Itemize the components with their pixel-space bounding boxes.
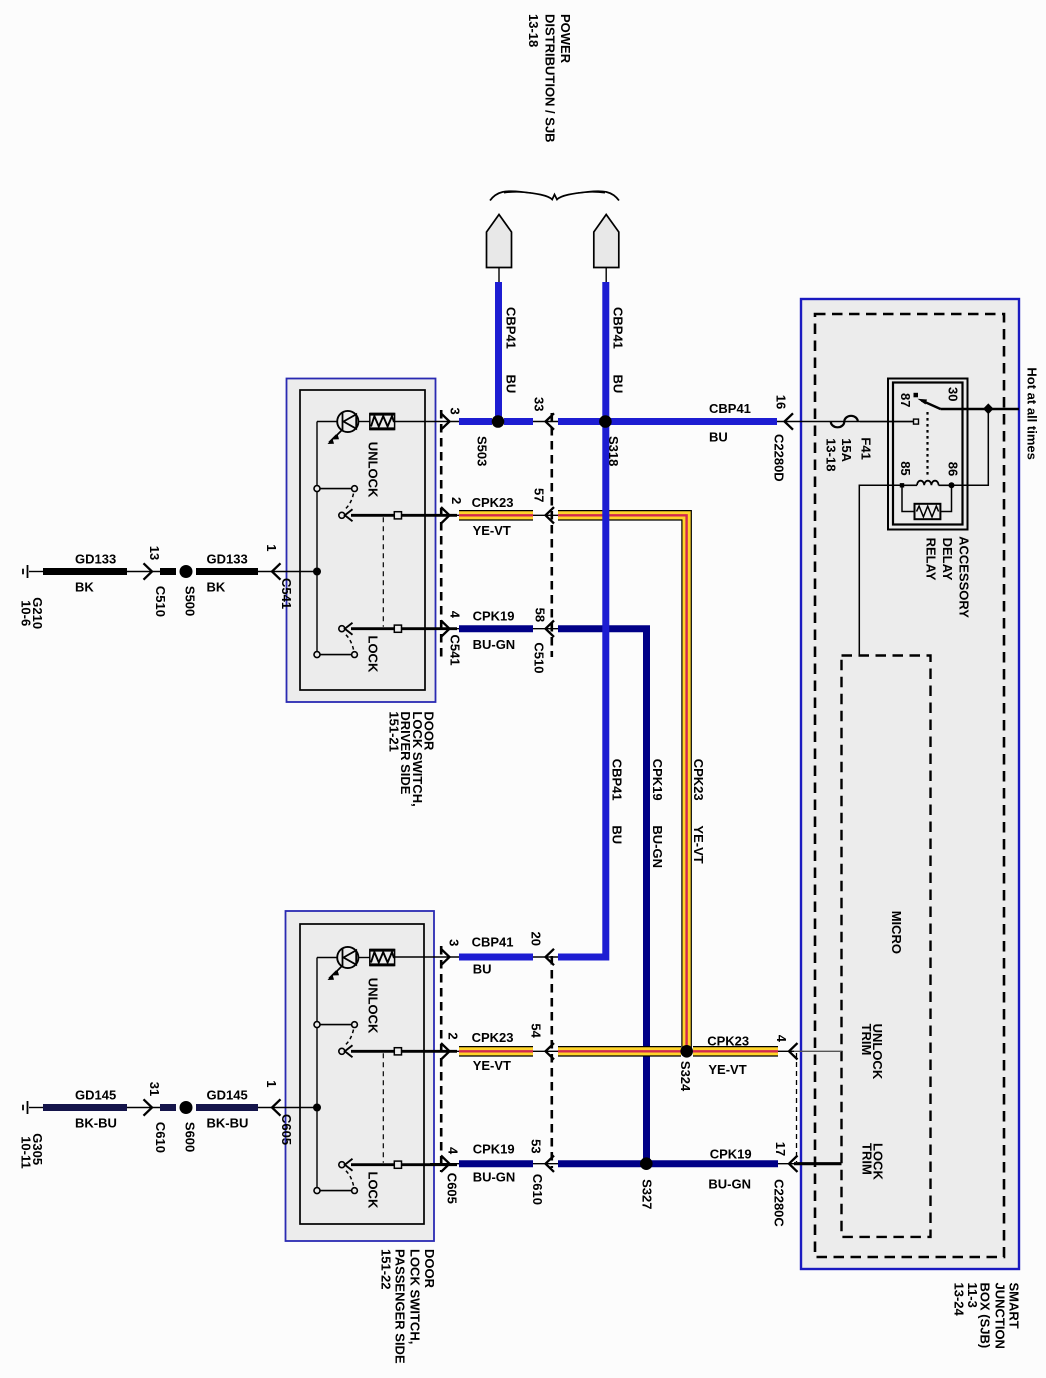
svg-text:3: 3 (447, 939, 462, 946)
svg-text:DELAY: DELAY (940, 538, 955, 581)
svg-text:YE-VT: YE-VT (691, 825, 706, 863)
svg-text:C610: C610 (153, 1122, 168, 1153)
svg-text:151-21: 151-21 (386, 711, 401, 751)
lock output wire (351, 1161, 457, 1168)
svg-text:53: 53 (529, 1139, 544, 1153)
door lock switch driver side: outer box (287, 379, 436, 703)
svg-text:BU: BU (609, 825, 624, 844)
relay pin labels (898, 387, 961, 476)
off-page connector arrow (left) (487, 215, 512, 283)
UNLOCK label (366, 442, 381, 498)
svg-text:BK-BU: BK-BU (75, 1115, 117, 1130)
svg-text:10-11: 10-11 (19, 1136, 34, 1169)
svg-text:C2280D: C2280D (772, 434, 787, 482)
unlock contact (314, 1022, 357, 1058)
CPK19 BU-GN labels (driver) (473, 609, 516, 653)
pin 16 and C2280D labels (772, 395, 789, 482)
svg-text:CPK19: CPK19 (650, 759, 665, 801)
svg-text:BK-BU: BK-BU (207, 1115, 249, 1130)
connector labels passenger rows (445, 1173, 546, 1205)
Hot at all times label (1025, 367, 1040, 459)
svg-text:UNLOCK: UNLOCK (366, 442, 381, 498)
ACCESSORY DELAY RELAY label (924, 536, 972, 618)
svg-text:33: 33 (532, 397, 547, 411)
svg-text:C605: C605 (279, 1114, 294, 1145)
inline connector arrow pin 13 (127, 563, 160, 579)
ground G305 label (19, 1133, 46, 1168)
svg-text:BU: BU (611, 375, 626, 394)
svg-text:30: 30 (946, 387, 961, 401)
wire CPK19 BU-GN run to corner and vertical drop (558, 629, 647, 1164)
svg-text:4: 4 (774, 1035, 789, 1043)
CBP41 BU labels (passenger) (472, 935, 514, 977)
unlock contact (314, 486, 357, 522)
pin 4 / 17 / C2280C labels (772, 1035, 789, 1228)
svg-text:CPK23: CPK23 (691, 759, 706, 801)
connector C510 dashed line (550, 413, 553, 657)
mechanical link dashed line (382, 1053, 384, 1162)
connector arrow into switch (258, 1099, 317, 1115)
svg-text:LOCK: LOCK (871, 1143, 886, 1180)
svg-text:13-18: 13-18 (824, 438, 839, 471)
lock output wire (351, 625, 457, 632)
svg-text:20: 20 (529, 932, 544, 946)
splice S327 (640, 1157, 653, 1170)
svg-text:1: 1 (264, 1080, 279, 1087)
pin 31 label (147, 1082, 162, 1096)
svg-text:PASSENGER SIDE: PASSENGER SIDE (393, 1249, 408, 1364)
svg-text:CBP41: CBP41 (504, 307, 519, 349)
switch interior left bus wire (316, 958, 318, 1191)
wire CPK23 YE-VT thin underlay (passenger) (430, 1050, 558, 1052)
arrows at C605/C610 on CBP41 (441, 949, 554, 965)
svg-text:Hot at all times: Hot at all times (1025, 367, 1040, 459)
TRIM LOCK label (860, 1143, 886, 1180)
splice S324 (680, 1045, 693, 1058)
svg-text:BU: BU (504, 375, 519, 394)
svg-text:S600: S600 (183, 1122, 198, 1152)
splice labels S503 S318 (475, 436, 622, 466)
brace (490, 191, 619, 200)
svg-text:1: 1 (264, 544, 279, 551)
relay coil (900, 481, 955, 489)
CPK23 YE-VT labels (SJB side) (707, 1034, 749, 1078)
svg-text:UNLOCK: UNLOCK (366, 978, 381, 1034)
svg-text:58: 58 (533, 608, 548, 622)
ground GD133 labels (75, 552, 248, 595)
svg-text:86: 86 (946, 462, 961, 476)
splice S500 label (183, 586, 198, 616)
UNLOCK label (366, 978, 381, 1034)
wire CBP41 BU pentagon drop (left) (495, 282, 502, 418)
svg-text:16: 16 (774, 395, 789, 409)
svg-text:LOCK SWITCH,: LOCK SWITCH, (408, 1249, 423, 1344)
connector arrow pin 17 (C2280C) (778, 1156, 798, 1172)
relay pin 86 wire to hot feed (952, 409, 989, 485)
wire CPK23 YE-VT thin underlay (driver) (430, 514, 558, 516)
connector C541 label (pin1) (279, 578, 294, 609)
wire CBP41 BU main bus thin underlay (395, 421, 914, 423)
connector C2280D arrow pin16 (785, 413, 794, 429)
arrows at C605/C610 on CPK19 (441, 1156, 554, 1172)
relay switch blade pin 30 (914, 393, 941, 409)
arrows at C605/C610 on CPK23 (441, 1043, 554, 1059)
svg-text:S327: S327 (640, 1179, 655, 1209)
off-page connector arrow (right) (594, 215, 619, 283)
lamp series resistor (358, 950, 394, 966)
svg-text:151-22: 151-22 (379, 1249, 394, 1289)
wire CBP41 BU segment (switch to S503) (459, 418, 492, 425)
svg-text:57: 57 (532, 488, 547, 502)
svg-text:CPK19: CPK19 (473, 1141, 515, 1156)
svg-text:87: 87 (898, 393, 913, 407)
door lock switch passenger side: outer box (286, 911, 435, 1241)
svg-text:BU-GN: BU-GN (473, 637, 516, 652)
ground G210 label (19, 597, 46, 629)
svg-text:BU: BU (473, 962, 492, 977)
svg-text:C541: C541 (448, 635, 463, 666)
svg-text:CPK23: CPK23 (472, 495, 514, 510)
wire CPK19 BU-GN thin underlay (passenger) (430, 1163, 558, 1165)
svg-text:54: 54 (529, 1023, 544, 1038)
wire CPK19 BU-GN thin underlay (driver) (430, 628, 558, 630)
ground symbol (23, 565, 43, 578)
pin 1 label (driver) (264, 544, 279, 551)
wire CBP41 BU segment (S503 to C510) (504, 418, 533, 425)
SJB title: SMART JUNCTION BOX (SJB) 11-3 13-24 (952, 1283, 1022, 1349)
CBP41 BU labels (pentagon drops) (504, 307, 626, 393)
svg-text:BK: BK (75, 579, 94, 594)
wire CPK23 YE-VT segment C610-S324 (558, 1046, 681, 1057)
connector C610 dashed line (550, 956, 553, 1168)
unlock output wire (351, 1048, 457, 1055)
svg-text:4: 4 (446, 1147, 461, 1155)
svg-text:DISTRIBUTION / SJB: DISTRIBUTION / SJB (543, 14, 558, 143)
lamp series resistor (358, 414, 394, 430)
svg-text:CBP41: CBP41 (709, 401, 751, 416)
indicator LED (317, 947, 358, 980)
wire CPK19 BU-GN segment C610-S327 (558, 1160, 643, 1167)
connector arrow into switch (258, 563, 317, 579)
connector C610 label (ground) (153, 1122, 168, 1153)
accessory delay relay box (888, 379, 968, 530)
svg-text:S503: S503 (475, 436, 490, 466)
pin labels passenger rows (446, 932, 544, 1156)
wire to TRIM UNLOCK (794, 1050, 842, 1052)
wire CBP41 BU pentagon drop (right) (602, 282, 609, 418)
splice S503 (492, 415, 505, 428)
svg-text:C610: C610 (530, 1174, 545, 1205)
lock contact (314, 1159, 357, 1194)
svg-text:CPK23: CPK23 (707, 1034, 749, 1049)
driver switch title (386, 711, 436, 806)
svg-text:CBP41: CBP41 (472, 935, 514, 950)
ground wire GD145 segment 2 (196, 1104, 258, 1111)
svg-text:LOCK: LOCK (366, 1172, 381, 1209)
MICRO module dashed box (842, 656, 931, 1237)
ground GD145 labels (75, 1088, 248, 1131)
svg-text:ACCESSORY: ACCESSORY (957, 536, 972, 618)
lock contact (314, 623, 357, 658)
svg-text:YE-VT: YE-VT (473, 1058, 511, 1073)
CPK19 BU-GN labels (SJB side) (708, 1147, 751, 1192)
svg-text:4: 4 (448, 611, 463, 619)
svg-text:LOCK: LOCK (366, 636, 381, 673)
svg-text:S324: S324 (678, 1061, 693, 1092)
arrows at C541/C510 on CPK23 (441, 507, 554, 523)
svg-text:CPK19: CPK19 (473, 609, 515, 624)
relay internal resistor (902, 488, 952, 520)
splice S500 (180, 565, 193, 578)
connector arrows on bus at C541/C510 (441, 413, 554, 429)
splice labels S324 S327 (640, 1061, 694, 1210)
TRIM UNLOCK label (859, 1024, 885, 1080)
ground wire GD145 segment 1 (43, 1104, 127, 1111)
svg-text:CPK19: CPK19 (710, 1147, 752, 1162)
svg-text:CPK23: CPK23 (472, 1030, 514, 1045)
junction to coil feed (983, 403, 993, 414)
svg-text:F41: F41 (859, 437, 874, 459)
relay pin 85 wire to MICRO (859, 485, 902, 655)
wire CBP41 BU segment C605-C610 (459, 954, 533, 961)
svg-text:31: 31 (147, 1082, 162, 1096)
svg-text:BU: BU (709, 430, 728, 445)
pin 1 label (passenger) (264, 1080, 279, 1087)
inline connector arrow pin 13 (127, 1099, 160, 1115)
svg-text:SMART: SMART (1007, 1283, 1022, 1329)
wire CBP41 BU thin underlay (passenger) (395, 956, 558, 958)
svg-text:MICRO: MICRO (889, 911, 904, 954)
fuse F41 (831, 416, 858, 428)
svg-text:BU-GN: BU-GN (473, 1169, 516, 1184)
svg-text:85: 85 (898, 461, 913, 475)
svg-text:BU-GN: BU-GN (708, 1177, 751, 1192)
CPK23 YE-VT labels (driver) (472, 495, 514, 538)
relay actuation dotted line (926, 412, 928, 477)
connector C510 label (ground) (153, 586, 168, 617)
CPK19 BU-GN labels (passenger) (473, 1141, 516, 1184)
splice segment (160, 568, 176, 575)
smart junction box (SJB) outline (801, 299, 1019, 1269)
svg-text:BK: BK (207, 579, 226, 594)
splice S600 (180, 1101, 193, 1114)
wire CBP41 BU main vertical S318 to passenger switch (558, 425, 606, 957)
POWER DISTRIBUTION / SJB 13-18 label (526, 14, 573, 143)
pin 13 label (147, 546, 162, 560)
connector labels driver rows (448, 635, 547, 674)
pin labels driver rows (448, 397, 548, 622)
svg-text:GD145: GD145 (75, 1088, 116, 1103)
unlock output wire (351, 512, 457, 519)
connector C2280 dashed line (796, 1053, 798, 1162)
wire to TRIM LOCK (794, 1162, 842, 1165)
arrows at C541/C510 on CPK19 (441, 621, 554, 637)
splice S318 (599, 415, 612, 428)
wire CPK23 YE-VT segment C541-C510 (459, 510, 533, 521)
mechanical link dashed line (382, 517, 384, 626)
connector arrow pin 4 (TRIM UNLOCK) (778, 1043, 798, 1059)
relay pin 30 feed wire (Hot at all times) (941, 408, 1020, 411)
svg-text:S500: S500 (183, 586, 198, 616)
svg-text:2: 2 (449, 497, 464, 504)
svg-text:2: 2 (446, 1032, 461, 1039)
svg-text:S318: S318 (606, 436, 621, 466)
CPK23 YE-VT labels (passenger) (472, 1030, 514, 1073)
svg-text:15A: 15A (839, 438, 854, 462)
svg-text:C510: C510 (532, 642, 547, 673)
svg-text:CBP41: CBP41 (611, 307, 626, 349)
svg-text:JUNCTION: JUNCTION (993, 1283, 1008, 1349)
ground symbol (23, 1101, 43, 1114)
splice segment (160, 1104, 176, 1111)
LOCK label (366, 1172, 381, 1209)
connector C605 dashed line (440, 946, 443, 1172)
common feed junction (313, 1104, 321, 1112)
MICRO label (889, 911, 904, 954)
svg-text:C605: C605 (445, 1173, 460, 1204)
wire CPK23 YE-VT segment S324-SJB (693, 1046, 778, 1057)
svg-text:C2280C: C2280C (772, 1179, 787, 1227)
svg-text:RELAY: RELAY (924, 538, 939, 581)
connector C541 dashed line (440, 410, 443, 661)
wire CPK19 BU-GN segment S327-SJB (650, 1160, 778, 1167)
wire CPK23 YE-VT run to corner and vertical drop (558, 515, 687, 1051)
svg-text:C510: C510 (153, 586, 168, 617)
common feed junction (313, 568, 321, 576)
ground wire GD133 segment 1 (43, 568, 127, 575)
svg-text:GD133: GD133 (207, 552, 248, 567)
fuse F41 labels (824, 437, 874, 471)
LOCK label (366, 636, 381, 673)
wire CPK19 BU-GN segment C605-C610 (459, 1160, 533, 1167)
splice S600 label (183, 1122, 198, 1152)
svg-text:YE-VT: YE-VT (708, 1062, 746, 1077)
relay pin 87 terminal (860, 419, 919, 424)
indicator LED (317, 411, 358, 444)
svg-text:CBP41: CBP41 (609, 759, 624, 801)
svg-text:10-6: 10-6 (19, 600, 34, 626)
svg-text:GD133: GD133 (75, 552, 116, 567)
CBP41 BU labels (main bus) (709, 401, 751, 445)
wire CPK23 YE-VT segment C605-C610 (459, 1046, 533, 1057)
connector C605 label (pin1) (279, 1114, 294, 1145)
svg-text:POWER: POWER (558, 14, 573, 64)
vertical run labels CBP41/CPK19/CPK23 (609, 759, 706, 868)
switch interior left bus wire (316, 422, 318, 655)
svg-text:BU-GN: BU-GN (650, 825, 665, 868)
wire CBP41 BU segment (C510 to C2280D) (558, 418, 777, 425)
ground wire GD133 segment 2 (196, 568, 258, 575)
svg-text:13-18: 13-18 (526, 14, 541, 47)
svg-text:C541: C541 (279, 578, 294, 609)
wire CPK19 BU-GN segment C541-C510 (459, 625, 533, 632)
svg-text:17: 17 (773, 1142, 788, 1156)
svg-text:13: 13 (147, 546, 162, 560)
svg-text:DOOR: DOOR (422, 1249, 437, 1289)
SJB inner dashed boundary (815, 314, 1004, 1257)
passenger switch title (379, 1249, 438, 1364)
svg-text:13-24: 13-24 (952, 1283, 967, 1317)
svg-text:YE-VT: YE-VT (473, 523, 511, 538)
svg-text:GD145: GD145 (207, 1088, 248, 1103)
svg-text:3: 3 (448, 408, 463, 415)
svg-text:UNLOCK: UNLOCK (870, 1024, 885, 1080)
